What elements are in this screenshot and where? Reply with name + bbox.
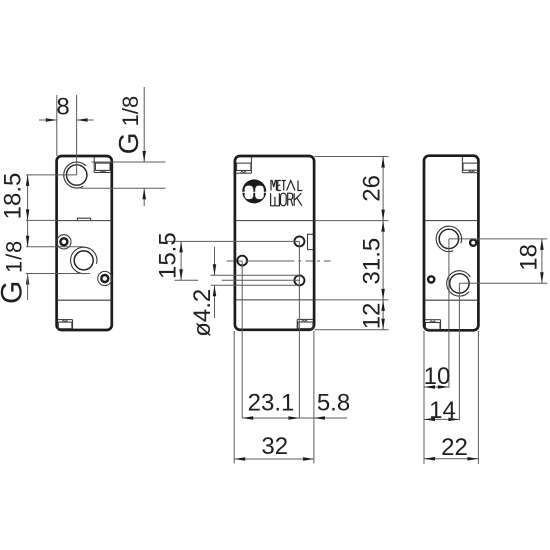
dimension 10 arrow right (438, 385, 449, 389)
svg-text:18.5: 18.5 (0, 173, 27, 220)
dimension G 1/8 top arrow up (142, 188, 146, 199)
right view small hole right (470, 240, 476, 246)
dimension 14 arrow left (424, 418, 435, 422)
svg-text:22: 22 (441, 434, 468, 461)
bottom hole tangent upper (210, 274, 299, 276)
left view top-right mounting tab (94, 157, 111, 172)
svg-text:8: 8 (56, 94, 69, 121)
dimension 31.5 line (382, 221, 384, 300)
dimension ø4.2 arrow up (213, 285, 217, 296)
dimension 10 arrow left (424, 385, 435, 389)
line port2 center to 18 dim (459, 282, 547, 284)
dimension 12 arrow down (381, 319, 385, 330)
middle view separation line 2 (235, 299, 313, 301)
dimension 8 arrow left (46, 118, 57, 122)
dimension ø4.2 line upper (214, 247, 216, 275)
middle view bottom-right mounting tab (297, 319, 313, 328)
svg-text:5.8: 5.8 (317, 390, 350, 417)
left view top port outer arc (64, 162, 86, 188)
dimension 5.8 arrow (314, 416, 325, 420)
dimension 23.1 arrow left (242, 416, 253, 420)
left G 1/8 tangent line upper (26, 246, 84, 248)
left view separation line 1 (57, 220, 112, 222)
svg-text:G 1/8: G 1/8 (113, 96, 144, 154)
dimension 10 line (424, 386, 449, 388)
dimension 18.5 extension bottom (26, 219, 57, 221)
dimension 32 arrow left (234, 457, 245, 461)
dimension 22 arrow right (467, 457, 478, 461)
right view port 1 outer arc (436, 226, 461, 251)
dimension G 1/8 top line (143, 87, 145, 162)
dimension 18 line (541, 239, 543, 283)
right view port 1 inner circle (439, 229, 458, 248)
extension line 26 top (315, 156, 389, 158)
Metal Work logo disc (242, 179, 266, 203)
dimension 14 arrow right (448, 418, 459, 422)
left view separation notch (77, 218, 90, 220)
middle view hole top-right (294, 236, 304, 246)
left view body (57, 156, 112, 330)
extension line 26/31.5 mid (315, 220, 389, 222)
dimension 18 arrow up (540, 239, 544, 250)
svg-text:18: 18 (516, 244, 543, 271)
extension line right body right (477, 331, 479, 464)
dimension 15.5 arrow down (179, 269, 183, 280)
dimension 18.5 arrow down (26, 209, 30, 220)
line from top hole to 15.5 dim (166, 240, 300, 242)
dimension 12 line (382, 300, 384, 330)
right view port 2 inner circle (450, 274, 469, 293)
left view top port tangent line lower (81, 187, 166, 189)
right view separation line 1 (424, 220, 478, 222)
left G 1/8 arrow down (26, 236, 30, 247)
svg-text:23.1: 23.1 (248, 390, 295, 417)
dimension G 1/8 top arrow down (142, 151, 146, 162)
left view small hole ring A outer (57, 235, 71, 249)
dimension 15.5 arrow up (179, 241, 183, 252)
dimension 5.8 tail line (299, 417, 347, 419)
extension line 31.5/12 (315, 299, 389, 301)
left view small hole ring B (101, 275, 108, 282)
dimension 31.5 arrow down (381, 289, 385, 300)
left view bottom-left mounting tab (58, 320, 73, 329)
left view mid port inner circle (74, 251, 93, 270)
vertical line port1 center down (448, 239, 450, 388)
left G 1/8 tail line (27, 274, 29, 301)
dimension 31.5 arrow up (381, 221, 385, 232)
dimension 8 line (39, 119, 57, 121)
dimension 32 line (234, 458, 314, 460)
dimension 14 line (424, 418, 459, 420)
dimension 23.1 line (242, 417, 299, 419)
right view small hole left (428, 276, 434, 282)
svg-text:ø4.2: ø4.2 (189, 289, 216, 337)
dimension 18 arrow down (540, 272, 544, 283)
middle view hole bottom-right (294, 275, 304, 285)
right view port 2 outer arc (447, 271, 471, 296)
left view separation line 2 (57, 299, 112, 301)
dimension 18.5 line (27, 175, 29, 247)
dimension 15.5 line (180, 241, 182, 280)
dimension 8 arrow right (77, 118, 88, 122)
line from bottom hole center to 15.5 dim (175, 279, 199, 281)
right view body (424, 156, 478, 331)
dimension 18.5 extension top (port center line) (26, 174, 77, 176)
left view top port tangent line upper (92, 161, 166, 163)
middle view body (235, 156, 314, 330)
dimension ø4.2 line lower (214, 285, 216, 318)
extension line middle body left (233, 331, 235, 464)
dimension 22 line (424, 458, 478, 460)
vertical line from ø4.2 hole (241, 261, 243, 418)
line port1 center to 18 dim (449, 238, 547, 240)
svg-text:G 1/8: G 1/8 (0, 240, 29, 304)
svg-text:32: 32 (261, 433, 288, 460)
left G 1/8 tangent line lower (26, 273, 90, 275)
dimension 23.1 arrow right (288, 416, 299, 420)
svg-text:31.5: 31.5 (359, 238, 386, 285)
bottom hole tangent lower (211, 284, 300, 286)
extension line middle body right (313, 331, 315, 464)
extension line 12 bottom (315, 329, 389, 331)
dimension 26 arrow up (381, 157, 385, 168)
dimension 8 extension line left (56, 95, 58, 156)
dimension 32 arrow right (303, 457, 314, 461)
dimension 8 extension line right (to port center) (76, 95, 78, 175)
svg-text:10: 10 (424, 363, 451, 390)
dimension 26 arrow down (381, 210, 385, 221)
left view small hole ring B outer (98, 271, 112, 285)
left view top port inner circle (67, 165, 87, 185)
right view separation line 2 (424, 299, 478, 301)
dimension 22 arrow left (424, 457, 435, 461)
svg-text:14: 14 (429, 397, 456, 424)
dimension 18.5 arrow up (26, 175, 30, 186)
vertical line through right holes (298, 241, 300, 418)
left view mid port outer arc (71, 247, 97, 273)
logo text METAL (271, 181, 302, 191)
right view top-right mounting tab (462, 157, 477, 173)
middle view dashed center line (227, 260, 331, 262)
vertical line port2 center down (458, 283, 460, 420)
dimension 26 line (382, 157, 384, 221)
dimension 12 arrow up (381, 300, 385, 311)
middle view hole left (ø4.2) (237, 256, 247, 266)
middle view separation line 1 (235, 220, 313, 222)
dimension ø4.2 arrow down (213, 264, 217, 275)
logo text WORK (271, 193, 302, 206)
svg-text:15.5: 15.5 (154, 232, 181, 279)
left G 1/8 arrow up (26, 274, 30, 285)
svg-text:26: 26 (359, 175, 386, 202)
extension line right body left (423, 331, 425, 464)
svg-text:12: 12 (359, 303, 386, 330)
left view small hole ring A (60, 238, 67, 245)
middle view top-left mounting tab (236, 157, 251, 173)
middle view right edge notch rect (308, 234, 314, 249)
right view bottom-left mounting tab (425, 320, 441, 330)
